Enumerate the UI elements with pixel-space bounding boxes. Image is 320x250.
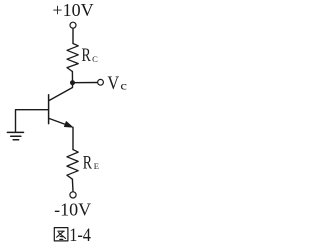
- wire collector: [49, 85, 73, 101]
- svg-text:C: C: [92, 54, 98, 64]
- resistor RE: [67, 150, 78, 180]
- wire top terminal to RC: [72, 28, 74, 43]
- terminal +10V: [70, 22, 76, 28]
- caption figure 1-4: hand-drawn CJK tu (picture) glyph: [54, 228, 68, 241]
- svg-text:+10V: +10V: [52, 0, 93, 20]
- label RE: [83, 151, 99, 173]
- svg-text:c: c: [120, 79, 127, 92]
- svg-text:E: E: [94, 161, 99, 171]
- wire RC to node: [71, 72, 73, 81]
- svg-text:R: R: [82, 44, 92, 66]
- svg-text:-10V: -10V: [54, 200, 91, 220]
- emitter arrowhead: [64, 121, 73, 127]
- resistor RC: [67, 44, 78, 72]
- ground: [7, 132, 23, 139]
- wire base: [16, 110, 49, 132]
- svg-text:1-4: 1-4: [69, 224, 91, 245]
- emitter lead of Q1: [49, 118, 67, 125]
- label RC: [82, 44, 99, 66]
- wire node to Vc terminal: [73, 82, 98, 84]
- wire emitter to RE: [72, 127, 74, 149]
- wire RE to bottom terminal: [71, 179, 74, 191]
- terminal Vc: [98, 79, 104, 85]
- svg-text:R: R: [83, 151, 93, 173]
- label Vc: [107, 72, 127, 93]
- svg-text:V: V: [107, 72, 119, 93]
- terminal -10V: [70, 192, 76, 198]
- node junction dot: [70, 80, 75, 85]
- transistor Q1 base bar: [48, 95, 50, 124]
